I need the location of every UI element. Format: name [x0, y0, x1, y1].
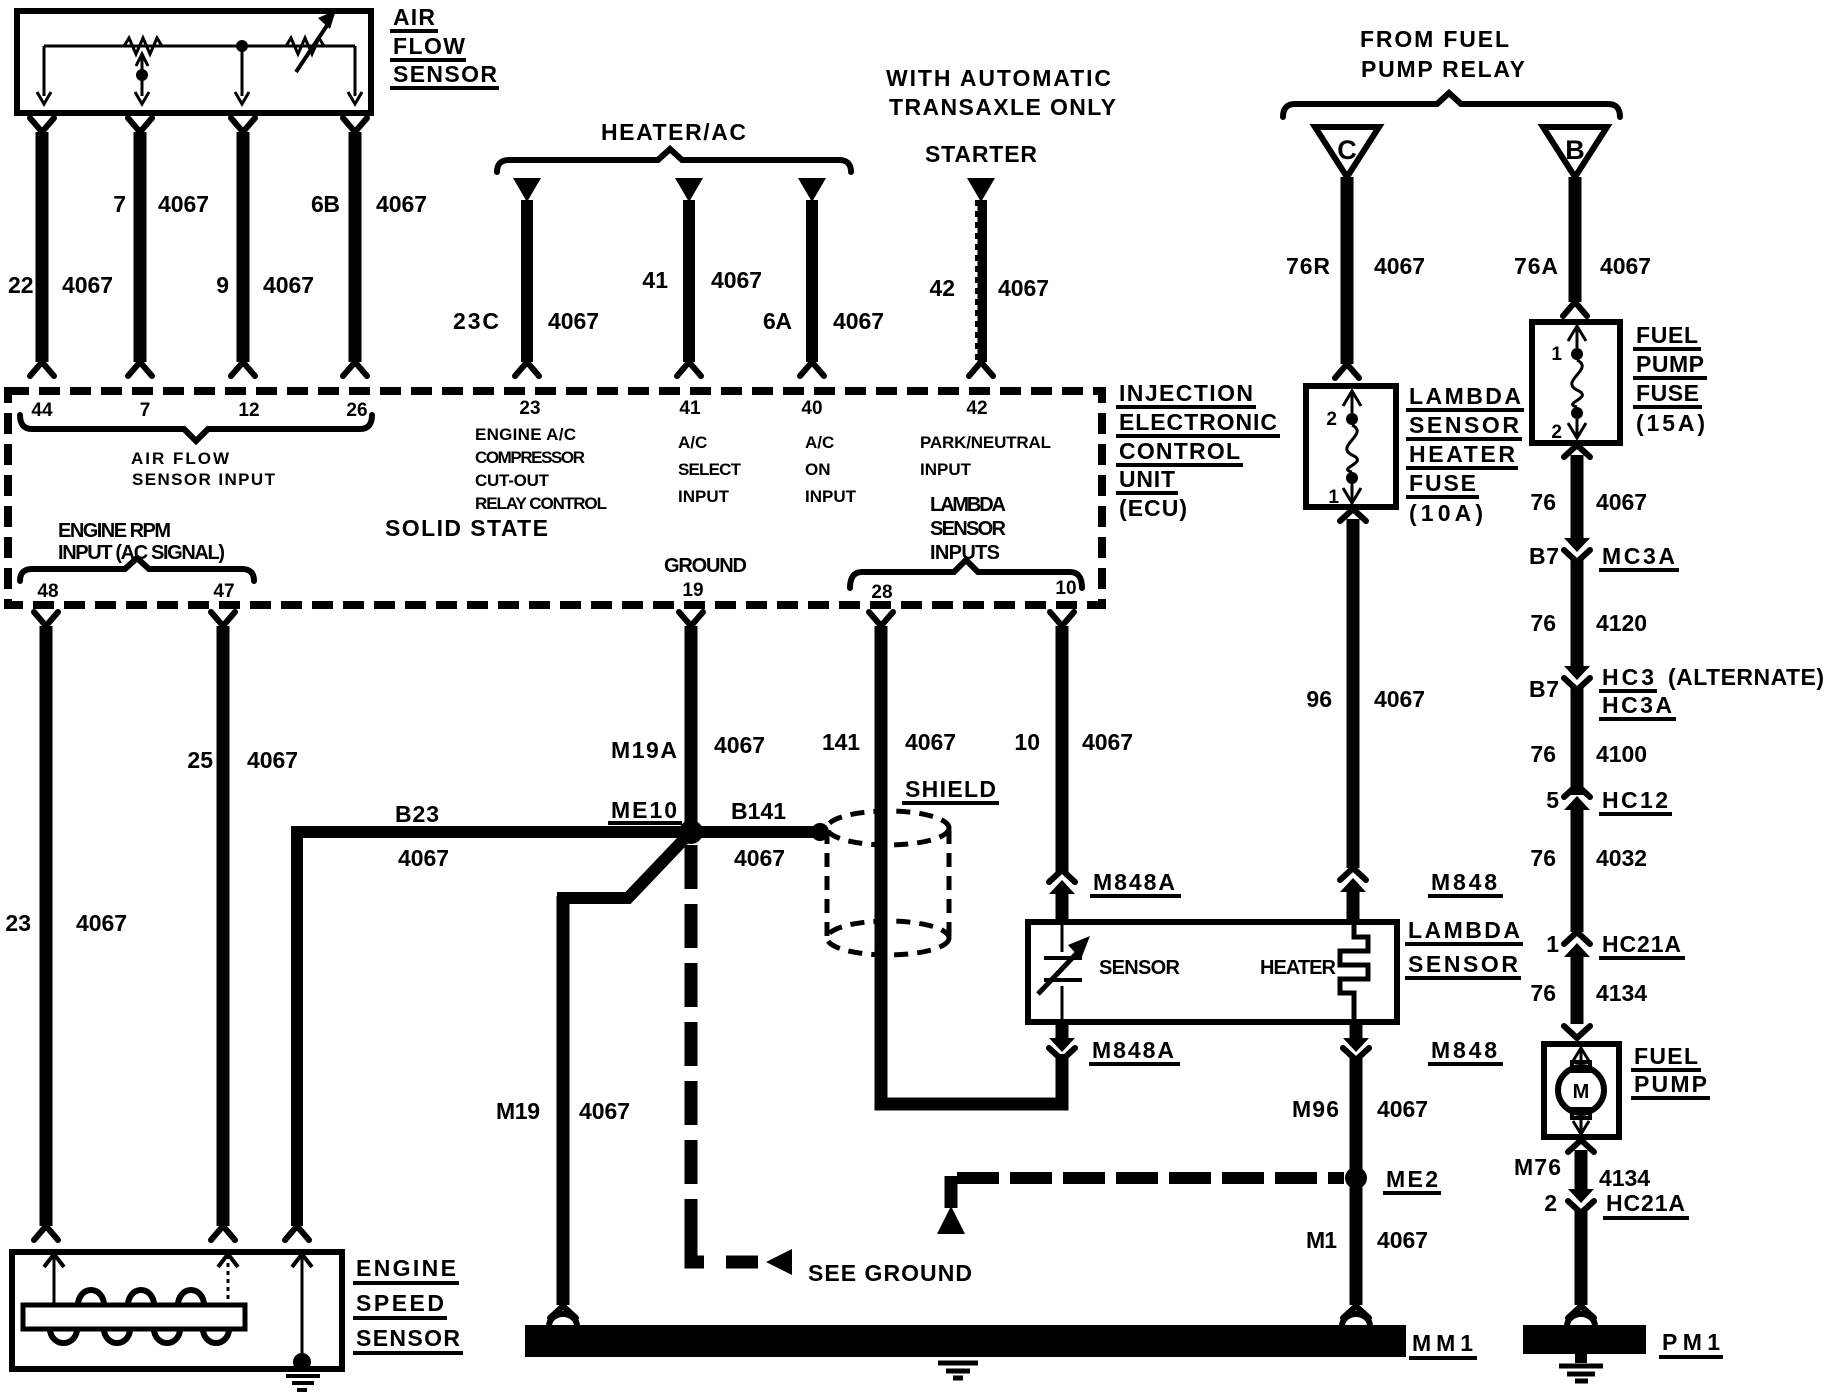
wire 41 bottom fork: [677, 362, 701, 376]
svg-text:5: 5: [1546, 787, 1559, 813]
label WITH AUTOMATIC TRANSAXLE ONLY: [886, 65, 1116, 120]
source arrow wire 42: [967, 178, 995, 202]
wire B141/4067: [700, 826, 818, 838]
ESS entry line 2 dotted: [227, 1255, 230, 1306]
svg-text:4120: 4120: [1596, 610, 1647, 636]
svg-text:7: 7: [113, 191, 126, 217]
svg-text:ENGINE A/C: ENGINE A/C: [475, 425, 576, 444]
shield top ellipse: [827, 811, 949, 845]
fuel pump relay bracket: [1283, 93, 1620, 117]
ESS coil core bar: [23, 1305, 245, 1329]
wiper arm of R1: [141, 56, 144, 96]
wire 76/4032: [1571, 806, 1584, 932]
svg-text:INPUT: INPUT: [805, 487, 857, 506]
fuse 15A element line: [1576, 326, 1579, 438]
label ENGINE A/C COMPRESSOR CUT-OUT RELAY CONTROL: [475, 425, 607, 513]
shield bottom ellipse: [827, 921, 949, 955]
wire 6B/4067: [349, 132, 362, 362]
connector M848 upper flare: [1340, 868, 1366, 880]
connector M848A bottom triangle: [1049, 1038, 1075, 1052]
HC21A bottom underline: [1603, 1216, 1689, 1220]
lambda sensor arrowhead: [1068, 936, 1090, 959]
variable resistor R2 zigzag: [286, 38, 324, 54]
svg-text:7: 7: [140, 400, 151, 421]
svg-text:(ALTERNATE): (ALTERNATE): [1668, 664, 1824, 690]
svg-text:1: 1: [1328, 487, 1339, 508]
air flow sensor left terminal arrow: [37, 92, 51, 104]
wire 9 top fork: [231, 118, 255, 132]
svg-text:28: 28: [871, 582, 892, 603]
wire to PM1: [1575, 1209, 1588, 1305]
svg-text:41: 41: [679, 398, 701, 419]
svg-text:1: 1: [1546, 931, 1559, 957]
svg-text:4067: 4067: [1082, 729, 1133, 755]
wire M19 bottom fork: [550, 1306, 576, 1318]
svg-text:ME10: ME10: [611, 797, 677, 823]
engine rpm input bracket: [20, 558, 254, 581]
node dot at shield: [811, 823, 829, 841]
svg-text:42: 42: [966, 398, 987, 419]
wire 25/4067 from pin47: [217, 626, 230, 1226]
connector HC12 triangle: [1564, 796, 1590, 810]
wire 9 bottom fork: [231, 362, 255, 376]
wire 6A bottom fork: [800, 362, 824, 376]
wire 41/4067: [683, 200, 695, 362]
ground bar PM1: [1523, 1325, 1646, 1354]
HC12 underline: [1599, 812, 1672, 816]
svg-text:4134: 4134: [1599, 1165, 1650, 1191]
svg-text:4067: 4067: [76, 910, 127, 936]
label FROM FUEL PUMP RELAY: [1360, 26, 1525, 82]
HC21A underline: [1599, 956, 1685, 960]
svg-text:INJECTION: INJECTION: [1119, 380, 1253, 406]
svg-text:4067: 4067: [1377, 1227, 1428, 1253]
ESS entry arrow 2: [218, 1254, 238, 1267]
svg-text:FROM FUEL: FROM FUEL: [1360, 26, 1509, 52]
svg-text:FUSE: FUSE: [1636, 380, 1699, 406]
svg-text:141: 141: [822, 729, 860, 755]
svg-text:STARTER: STARTER: [925, 141, 1037, 167]
wire 76/4067 below fuse: [1571, 455, 1584, 540]
air flow sensor left terminal wire: [43, 46, 46, 96]
wire M96 upper from fuse: [1347, 519, 1360, 868]
svg-text:AIR: AIR: [393, 4, 435, 30]
source arrow wire 41: [675, 178, 703, 202]
connector M848 bottom flare: [1343, 1048, 1369, 1060]
wire 76R bottom fork: [1335, 364, 1359, 378]
third terminal arrow: [235, 92, 249, 104]
PM1 ground symbol: [1559, 1366, 1603, 1381]
wire B23 bottom fork: [285, 1226, 309, 1240]
svg-text:4067: 4067: [1600, 253, 1651, 279]
svg-text:2: 2: [1544, 1190, 1557, 1216]
M848 top underline: [1428, 894, 1503, 898]
svg-text:4032: 4032: [1596, 845, 1647, 871]
air flow sensor internal bus wire: [44, 45, 355, 48]
ESS coil upper loops: [78, 1290, 204, 1305]
MM1 underline: [1409, 1356, 1477, 1360]
svg-text:76: 76: [1530, 980, 1556, 1006]
svg-text:ENGINE: ENGINE: [356, 1255, 456, 1281]
svg-text:4067: 4067: [711, 267, 762, 293]
wire 6A/4067: [806, 200, 818, 362]
connector M848A upper triangle: [1049, 880, 1075, 894]
variable resistor arrowhead: [318, 10, 336, 29]
svg-text:4067: 4067: [62, 272, 113, 298]
label ENGINE RPM INPUT (AC SIGNAL): [58, 520, 225, 564]
wire 7/4067: [134, 132, 147, 362]
svg-text:76A: 76A: [1514, 253, 1558, 279]
wire 42/4067 starter: [975, 200, 987, 362]
dashed wire corner at see-ground: [691, 1238, 704, 1262]
wire M1/4067 to MM1: [1350, 1186, 1363, 1305]
label LAMBDA SENSOR INPUTS: [930, 494, 1007, 564]
wire 42 bottom fork: [969, 362, 993, 376]
svg-text:2: 2: [1326, 409, 1337, 430]
ground bar MM1: [525, 1325, 1406, 1357]
fuse 15A squiggle: [1572, 360, 1583, 407]
svg-text:B141: B141: [731, 798, 786, 824]
svg-text:HC21A: HC21A: [1602, 931, 1681, 957]
svg-text:A/C: A/C: [678, 433, 707, 452]
fuel pump fuse box: [1532, 322, 1620, 443]
svg-text:CUT-OUT: CUT-OUT: [475, 471, 550, 490]
connector HC21A triangle: [1564, 943, 1590, 957]
wire M76/4134: [1575, 1150, 1588, 1191]
M848 bottom underline: [1428, 1062, 1503, 1066]
svg-text:ELECTRONIC: ELECTRONIC: [1119, 409, 1277, 435]
wire 23/4067 from pin48: [40, 626, 53, 1226]
svg-text:B: B: [1565, 135, 1585, 165]
fuel pump box: [1544, 1044, 1619, 1137]
M848A top underline: [1090, 894, 1181, 898]
fuel pump outlet arrow: [1573, 1121, 1589, 1134]
svg-text:42: 42: [929, 275, 955, 301]
connector HC3A flare: [1564, 678, 1590, 690]
svg-text:FUSE: FUSE: [1409, 470, 1476, 496]
svg-text:HEATER/AC: HEATER/AC: [601, 119, 746, 145]
svg-text:M: M: [1573, 1081, 1590, 1103]
wire 47 bottom fork: [211, 1226, 235, 1240]
fuse 10A bottom arrow: [1343, 488, 1361, 503]
svg-text:76R: 76R: [1286, 253, 1330, 279]
wiper terminal arrow: [135, 92, 149, 104]
svg-text:23: 23: [5, 910, 31, 936]
svg-text:PUMP RELAY: PUMP RELAY: [1361, 56, 1525, 82]
svg-text:SENSOR: SENSOR: [1099, 957, 1181, 979]
svg-text:PUMP: PUMP: [1634, 1071, 1707, 1097]
svg-text:6A: 6A: [763, 308, 792, 334]
fuel pump bottom flare: [1568, 1140, 1594, 1152]
svg-text:4067: 4067: [1374, 253, 1425, 279]
svg-text:HC21A: HC21A: [1606, 1190, 1685, 1216]
PM1 ground stem: [1575, 1354, 1587, 1363]
lambda sensor pin line left: [1061, 922, 1064, 952]
wire PM1 bar entry ring: [1567, 1314, 1595, 1326]
fuse 10A element line: [1351, 390, 1354, 503]
svg-text:AIR FLOW: AIR FLOW: [131, 449, 230, 468]
svg-text:A/C: A/C: [805, 433, 834, 452]
fuse 15A bottom dot: [1571, 407, 1583, 419]
svg-text:2: 2: [1551, 422, 1562, 443]
connector MC3A triangle: [1564, 538, 1590, 552]
fuse 10A top arrow: [1343, 391, 1361, 406]
wire 22 top fork: [30, 118, 54, 132]
lambda sensor pin line lower: [1061, 986, 1064, 1022]
svg-text:4067: 4067: [734, 845, 785, 871]
svg-text:LAMBDA: LAMBDA: [930, 494, 1006, 516]
wire 48 bottom fork: [34, 1226, 58, 1240]
svg-text:22: 22: [8, 272, 34, 298]
wire 141/4067 from pin28 through shield: [881, 626, 1062, 1104]
svg-text:SEE GROUND: SEE GROUND: [808, 1260, 972, 1286]
SHIELD underline: [902, 801, 999, 805]
right terminal arrow: [348, 92, 362, 104]
connector M848 bottom triangle: [1343, 1038, 1369, 1052]
svg-text:M848A: M848A: [1092, 1037, 1174, 1063]
svg-text:M96: M96: [1292, 1096, 1339, 1122]
svg-text:HC3A: HC3A: [1602, 692, 1672, 718]
HC3 underline: [1599, 689, 1657, 693]
connector triangle B: [1543, 127, 1607, 177]
svg-text:B7: B7: [1529, 543, 1559, 569]
motor M circle: [1558, 1067, 1604, 1113]
svg-text:SOLID STATE: SOLID STATE: [385, 515, 548, 541]
ESS ground dot: [293, 1353, 311, 1371]
svg-text:B23: B23: [395, 801, 439, 827]
dashed see-ground horizontal: [726, 1256, 758, 1269]
M848A bottom underline: [1089, 1062, 1180, 1066]
svg-text:76: 76: [1530, 845, 1556, 871]
svg-text:4067: 4067: [1596, 489, 1647, 515]
svg-text:SENSOR INPUT: SENSOR INPUT: [132, 470, 276, 489]
MM1 ground symbol: [938, 1363, 978, 1378]
wire 19 top fork: [679, 612, 703, 626]
fuel pump inlet arrow: [1573, 1048, 1589, 1061]
air flow sensor box: [17, 11, 371, 113]
wire PM1 fork: [1568, 1306, 1594, 1318]
svg-text:4067: 4067: [714, 732, 765, 758]
connector M848A bottom flare: [1049, 1048, 1075, 1060]
svg-text:SENSOR: SENSOR: [930, 518, 1007, 540]
wire M19 bar entry ring: [549, 1314, 577, 1326]
fuse 10A bottom dot: [1346, 472, 1358, 484]
dashed ground wire below ME10: [685, 845, 698, 1238]
svg-text:4067: 4067: [579, 1098, 630, 1124]
svg-text:GROUND: GROUND: [664, 555, 747, 577]
wire below lambda sensor left pin: [1056, 1022, 1069, 1044]
connector M848A upper flare: [1049, 870, 1075, 882]
svg-text:40: 40: [801, 398, 822, 419]
heater element symbol: [1340, 922, 1368, 1022]
ECU dashed box: [8, 391, 1102, 605]
svg-text:B7: B7: [1529, 676, 1559, 702]
svg-text:23: 23: [519, 398, 540, 419]
third terminal wire: [241, 46, 244, 96]
lambda sensor box: [1028, 922, 1397, 1022]
right terminal wire: [354, 46, 357, 96]
fuse 10A bottom flare: [1340, 509, 1366, 521]
svg-text:4067: 4067: [398, 845, 449, 871]
svg-text:PUMP: PUMP: [1636, 351, 1704, 377]
wire 28 top fork: [869, 612, 893, 626]
svg-text:4067: 4067: [905, 729, 956, 755]
wire 76A bottom fork: [1563, 302, 1587, 316]
svg-text:19: 19: [682, 580, 703, 601]
wire 76A/4067: [1569, 177, 1582, 302]
lambda sensor inputs bracket: [850, 560, 1082, 588]
dashed wire to ME2: [957, 1172, 1344, 1184]
fuse 10A top dot: [1346, 413, 1358, 425]
svg-text:INPUT: INPUT: [920, 460, 972, 479]
svg-text:SELECT: SELECT: [678, 460, 742, 479]
wire 47 top fork: [211, 612, 235, 626]
ME2 underline: [1383, 1191, 1441, 1195]
svg-text:HC3: HC3: [1602, 664, 1654, 690]
see ground pointer triangle: [766, 1249, 792, 1275]
fuse 15A top arrow: [1568, 326, 1586, 341]
svg-text:M1: M1: [1306, 1227, 1337, 1253]
label ENGINE SPEED SENSOR: [353, 1255, 463, 1353]
wire 22 bottom fork: [30, 362, 54, 376]
label INJECTION ELECTRONIC CONTROL UNIT (ECU): [1116, 380, 1280, 521]
wire 76/4120: [1571, 558, 1584, 668]
lambda sensor heater fuse box: [1306, 386, 1396, 507]
svg-text:M19: M19: [496, 1098, 540, 1124]
wire 10/4067 from pin10: [1056, 626, 1069, 872]
svg-text:4067: 4067: [548, 308, 599, 334]
svg-text:MC3A: MC3A: [1602, 543, 1675, 569]
svg-text:PARK/NEUTRAL: PARK/NEUTRAL: [920, 433, 1051, 452]
heater/ac bracket: [497, 149, 851, 172]
svg-text:76: 76: [1530, 610, 1556, 636]
svg-text:76: 76: [1530, 741, 1556, 767]
ESS entry line 1: [53, 1255, 56, 1306]
svg-text:10: 10: [1055, 578, 1076, 599]
label AIR FLOW SENSOR: [390, 4, 499, 88]
node junction dot on bus: [236, 40, 248, 52]
wire M1 bottom fork: [1343, 1306, 1369, 1318]
wire 76/4134: [1571, 953, 1584, 1024]
svg-text:PM1: PM1: [1662, 1329, 1720, 1355]
fuel pump box top flare: [1564, 1026, 1590, 1038]
connector HC21A2 flare: [1568, 1201, 1594, 1213]
connector HC3A triangle: [1564, 666, 1590, 680]
lambda sensor element bars: [1044, 958, 1082, 980]
svg-text:47: 47: [213, 581, 234, 602]
wire into lambda box left pin: [1056, 890, 1069, 924]
ESS coil lower loops: [50, 1329, 229, 1343]
svg-text:4067: 4067: [158, 191, 209, 217]
fuel pump brush top: [1572, 1062, 1590, 1071]
fuel pump outlet line: [1580, 1118, 1583, 1133]
fuse 10A squiggle: [1347, 425, 1358, 472]
wire B23/4067: [297, 832, 685, 1226]
fuel pump inlet line: [1580, 1048, 1583, 1062]
label A/C ON INPUT: [805, 433, 857, 506]
svg-text:76: 76: [1530, 489, 1556, 515]
wire M19/4067 diagonal from ME10: [557, 834, 689, 898]
ESS ground symbol: [286, 1376, 320, 1390]
svg-text:M848: M848: [1431, 1037, 1497, 1063]
wire 7 bottom fork: [128, 362, 152, 376]
wire M96/4067 to ME2: [1350, 1056, 1363, 1172]
fuel pump brush bottom: [1572, 1109, 1590, 1118]
fuse 15A bottom flare: [1564, 445, 1590, 457]
svg-text:4134: 4134: [1596, 980, 1647, 1006]
wire 42 serration: [975, 206, 978, 368]
svg-text:COMPRESSOR: COMPRESSOR: [475, 448, 585, 467]
svg-text:4100: 4100: [1596, 741, 1647, 767]
resistor R1 zigzag: [124, 38, 162, 54]
wire M1 bar entry ring: [1342, 1314, 1370, 1326]
ESS entry arrow 1: [44, 1254, 64, 1267]
svg-text:MM1: MM1: [1412, 1330, 1473, 1356]
svg-text:M848A: M848A: [1093, 869, 1175, 895]
svg-text:25: 25: [187, 747, 213, 773]
label LAMBDA SENSOR beside box: [1405, 917, 1523, 978]
svg-text:4067: 4067: [376, 191, 427, 217]
wire 6B top fork: [343, 118, 367, 132]
connector HC12 flare: [1564, 785, 1590, 797]
HC3A underline: [1599, 717, 1676, 721]
wire below lambda heater pin: [1350, 1022, 1363, 1044]
svg-text:9: 9: [216, 272, 229, 298]
svg-text:FLOW: FLOW: [393, 33, 465, 59]
svg-text:TRANSAXLE ONLY: TRANSAXLE ONLY: [889, 94, 1116, 120]
ESS entry line 3: [301, 1255, 304, 1358]
svg-text:4067: 4067: [833, 308, 884, 334]
label AIR FLOW SENSOR INPUT: [131, 449, 276, 489]
variable resistor arrow shaft: [296, 24, 328, 72]
svg-text:M76: M76: [1514, 1154, 1561, 1180]
wire 9/4067: [237, 132, 250, 362]
svg-text:4067: 4067: [247, 747, 298, 773]
wire M19A/4067 from pin19: [685, 626, 698, 828]
svg-text:4067: 4067: [263, 272, 314, 298]
svg-text:41: 41: [642, 267, 668, 293]
source arrow wire 6A: [798, 178, 826, 202]
wire 76R/4067: [1341, 177, 1354, 364]
connector HC21A flare: [1564, 932, 1590, 944]
svg-text:44: 44: [31, 400, 53, 421]
svg-text:M19A: M19A: [611, 737, 677, 763]
ME10 underline: [608, 821, 682, 825]
svg-text:SPEED: SPEED: [356, 1290, 444, 1316]
svg-text:HEATER: HEATER: [1260, 957, 1337, 979]
connector MC3A flare: [1564, 550, 1590, 562]
svg-text:10: 10: [1014, 729, 1040, 755]
svg-text:WITH AUTOMATIC: WITH AUTOMATIC: [886, 65, 1111, 91]
svg-text:1: 1: [1551, 344, 1562, 365]
label FUEL PUMP FUSE (15A): [1633, 322, 1707, 436]
node ME10 junction dot: [679, 820, 703, 844]
svg-text:96: 96: [1306, 686, 1332, 712]
svg-text:26: 26: [346, 400, 367, 421]
svg-text:M848: M848: [1431, 869, 1497, 895]
source arrow wire 23C: [513, 178, 541, 202]
svg-text:FUEL: FUEL: [1636, 322, 1698, 348]
shield right wall: [947, 830, 952, 938]
svg-text:6B: 6B: [311, 191, 340, 217]
svg-text:CONTROL: CONTROL: [1119, 438, 1240, 464]
ESS entry arrow 3: [292, 1254, 312, 1267]
wire 7 top fork: [128, 118, 152, 132]
svg-text:12: 12: [238, 400, 259, 421]
wire 22/4067: [36, 132, 49, 362]
svg-text:(ECU): (ECU): [1119, 495, 1187, 521]
svg-text:4067: 4067: [998, 275, 1049, 301]
